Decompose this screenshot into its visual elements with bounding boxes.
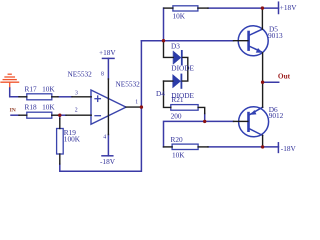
svg-text:9013: 9013 — [268, 31, 283, 40]
svg-text:NE5532: NE5532 — [68, 70, 93, 79]
svg-text:+18V: +18V — [99, 48, 116, 57]
svg-text:R18 10K: R18 10K — [25, 103, 56, 112]
svg-text:D4: D4 — [156, 89, 165, 98]
svg-text:9012: 9012 — [269, 111, 284, 120]
svg-text:200: 200 — [171, 111, 182, 120]
svg-text:D3: D3 — [171, 41, 180, 50]
svg-text:10K: 10K — [172, 151, 185, 160]
svg-text:4: 4 — [103, 135, 106, 141]
svg-text:NE5532: NE5532 — [116, 80, 141, 89]
svg-text:100K: 100K — [64, 135, 81, 144]
svg-text:+18V: +18V — [280, 3, 297, 12]
svg-text:8: 8 — [101, 72, 104, 78]
svg-text:R17 10K: R17 10K — [25, 85, 56, 94]
svg-text:Out: Out — [278, 72, 291, 81]
svg-text:1: 1 — [135, 100, 138, 106]
svg-text:2: 2 — [75, 107, 78, 113]
svg-text:3: 3 — [75, 91, 78, 97]
svg-text:IN: IN — [10, 107, 16, 113]
svg-text:DIODE: DIODE — [171, 64, 194, 73]
svg-text:R20: R20 — [171, 135, 184, 144]
svg-text:-18V: -18V — [281, 144, 297, 153]
svg-text:-18V: -18V — [100, 157, 116, 166]
svg-text:10K: 10K — [173, 12, 186, 21]
svg-text:R21: R21 — [171, 95, 184, 104]
